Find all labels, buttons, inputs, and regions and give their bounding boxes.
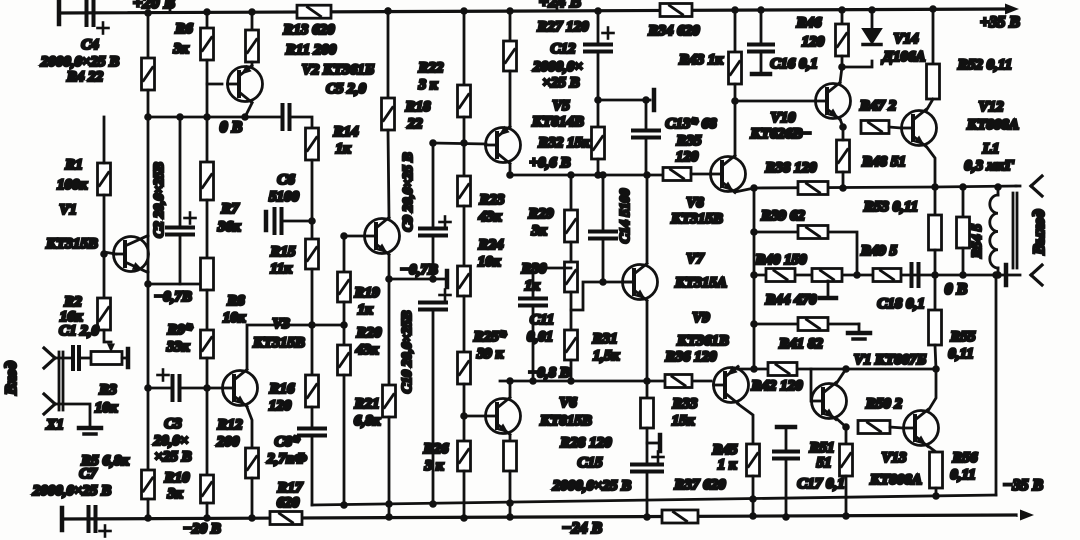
node line369/V11 bbox=[842, 365, 850, 373]
wire R22 top bbox=[463, 11, 466, 85]
label R56 value bbox=[950, 467, 975, 483]
svg-text:R33: R33 bbox=[671, 396, 698, 412]
resistor R17 bbox=[270, 512, 302, 525]
svg-text:V1: V1 bbox=[59, 202, 77, 218]
node rail/R21col bbox=[384, 7, 392, 15]
node 0V/R4 column bbox=[144, 113, 152, 121]
wire C16 bottom stub bbox=[760, 52, 763, 72]
label L1 value bbox=[964, 158, 1014, 174]
label C12 bbox=[550, 41, 576, 57]
label C6 value bbox=[269, 189, 300, 205]
label R46 value bbox=[802, 34, 825, 50]
svg-text:R53 0,11: R53 0,11 bbox=[863, 199, 918, 215]
svg-text:R44 470: R44 470 bbox=[764, 292, 817, 308]
wire R40 line bbox=[754, 274, 935, 277]
wire V4 base lead bbox=[344, 235, 364, 238]
label R22 bbox=[417, 60, 444, 76]
label R12 value bbox=[216, 434, 240, 450]
node V3 collector node bbox=[308, 321, 316, 329]
label 0V left bbox=[220, 119, 243, 136]
svg-text:R48 51: R48 51 bbox=[861, 154, 906, 170]
wire R7 top from base bbox=[206, 84, 209, 162]
capacitor C10 bbox=[420, 290, 451, 310]
label +24V bbox=[539, 0, 581, 11]
svg-text:R29: R29 bbox=[527, 206, 554, 222]
resistor R29 bbox=[565, 210, 578, 242]
node L1 top bbox=[994, 183, 1002, 191]
node 0V node bbox=[931, 271, 939, 279]
label R52 bbox=[957, 57, 1012, 73]
node R45 rail bbox=[749, 512, 757, 520]
svg-text:C8*: C8* bbox=[274, 434, 300, 450]
svg-text:5100: 5100 bbox=[269, 189, 300, 205]
capacitor C12 bbox=[585, 28, 614, 52]
label V7 bbox=[686, 251, 704, 267]
C17 top bar bbox=[777, 425, 795, 430]
wire R27 top bbox=[509, 11, 512, 41]
svg-text:10к: 10к bbox=[478, 254, 501, 270]
svg-text:X1: X1 bbox=[45, 417, 64, 433]
resistor R7 bbox=[201, 162, 214, 200]
wire R11 to V2 bbox=[251, 62, 254, 66]
label R50 bbox=[865, 396, 903, 412]
label R7 value bbox=[217, 219, 241, 235]
label C4 bbox=[81, 37, 99, 53]
label V3 type bbox=[252, 335, 305, 351]
resistor R26 bbox=[458, 441, 471, 471]
node rail/R11 bbox=[248, 8, 256, 16]
label -0.7V mid bbox=[400, 262, 438, 278]
svg-text:R45: R45 bbox=[711, 442, 738, 458]
resistor R56 bbox=[930, 452, 943, 488]
wire V8 emitter line bbox=[754, 187, 935, 188]
wire V7 emitter bbox=[646, 301, 649, 398]
label R7 bbox=[220, 201, 239, 217]
svg-text:R15: R15 bbox=[269, 244, 296, 260]
wire R15 to R16 bbox=[311, 269, 314, 375]
label C4 value bbox=[40, 54, 120, 70]
resistor R13 bbox=[297, 5, 331, 18]
transistor V6 bbox=[486, 398, 521, 435]
node rail/R4 bbox=[144, 9, 152, 17]
wire R48 to line bbox=[842, 172, 845, 188]
wire -20V/-24V bottom rail bbox=[62, 515, 1016, 519]
node R54 bottom bbox=[959, 271, 967, 279]
svg-text:2,7пФ: 2,7пФ bbox=[266, 451, 307, 467]
wire R43 top bbox=[734, 10, 737, 52]
wire base node to R23 bbox=[463, 143, 466, 176]
capacitor C9 bbox=[420, 217, 451, 236]
node R51 rail bbox=[842, 512, 850, 520]
wire X1 body bbox=[59, 352, 63, 410]
node line369/R55 bbox=[932, 365, 940, 373]
label R23 bbox=[478, 192, 505, 208]
label V10 type bbox=[750, 126, 812, 142]
svg-text:+35 В: +35 В bbox=[980, 14, 1020, 31]
capacitor C6 bbox=[275, 209, 282, 233]
label V5 type bbox=[531, 114, 584, 130]
svg-text:R34 620: R34 620 bbox=[647, 23, 700, 39]
label R19 value bbox=[357, 302, 373, 318]
capacitor C15 bbox=[632, 452, 664, 472]
node C13 top node bbox=[642, 96, 650, 104]
wire C17 to rail bbox=[785, 459, 788, 517]
transistor V4 bbox=[365, 218, 400, 255]
label R35 bbox=[675, 133, 702, 149]
svg-text:R21: R21 bbox=[353, 396, 379, 412]
node R54 top bbox=[959, 183, 967, 191]
R3 right terminal bbox=[126, 349, 131, 367]
wire V6 emitter bbox=[509, 435, 512, 441]
label C15 bbox=[577, 455, 603, 471]
resistor R15 bbox=[306, 239, 319, 269]
svg-text:R36 120: R36 120 bbox=[664, 349, 717, 365]
wire top rail arrow bbox=[1005, 4, 1019, 15]
label -35V bbox=[1003, 477, 1044, 494]
wire V5 base line bbox=[433, 143, 486, 144]
label C17 bbox=[797, 476, 845, 492]
potentiometer R3 bbox=[91, 352, 122, 365]
node C3 left node bbox=[144, 384, 152, 392]
label R42 bbox=[750, 378, 803, 394]
capacitor C18 bbox=[912, 264, 919, 286]
svg-text:×25 В: ×25 В bbox=[154, 449, 191, 465]
svg-text:C1 2,0: C1 2,0 bbox=[59, 323, 100, 339]
svg-text:R25*: R25* bbox=[473, 329, 507, 345]
svg-text:R20: R20 bbox=[355, 325, 382, 341]
label R1 bbox=[64, 157, 83, 173]
label V2 bbox=[302, 62, 375, 78]
wire R20 to bottom line bbox=[343, 375, 346, 505]
label R55 bbox=[949, 329, 976, 345]
label C12 value1 bbox=[532, 59, 583, 75]
svg-text:С15: С15 bbox=[577, 455, 603, 471]
wire R39 line bbox=[754, 232, 857, 275]
wire R9 to C3 node bbox=[206, 358, 209, 388]
svg-text:R24: R24 bbox=[477, 237, 504, 253]
svg-text:КТ815В: КТ815В bbox=[539, 413, 592, 429]
label -0.7V left bbox=[154, 289, 192, 305]
label V12 type bbox=[966, 117, 1019, 133]
label R3 bbox=[98, 382, 117, 398]
resistor R42 bbox=[768, 363, 797, 376]
resistor R37 bbox=[662, 510, 698, 523]
node -0.8/R36 bbox=[643, 377, 651, 385]
svg-text:R39 62: R39 62 bbox=[760, 208, 805, 224]
label R30 bbox=[520, 261, 547, 277]
svg-text:C5 2,0: C5 2,0 bbox=[326, 81, 367, 97]
label R34 bbox=[647, 23, 700, 39]
transistor V1 bbox=[114, 236, 149, 273]
wire X1 top pin to C1 bbox=[55, 357, 70, 360]
label R48 bbox=[861, 154, 906, 170]
label R43 bbox=[678, 52, 723, 68]
wire R22 to base node bbox=[463, 117, 466, 143]
wire C14 bottom stub bbox=[602, 239, 605, 282]
svg-text:1,5к: 1,5к bbox=[593, 348, 620, 364]
svg-text:R49 5: R49 5 bbox=[860, 243, 898, 259]
label V1 bbox=[59, 202, 77, 218]
svg-text:V6: V6 bbox=[559, 395, 577, 411]
label C5 bbox=[326, 81, 367, 97]
resistor R6 bbox=[201, 28, 214, 60]
wire R3 to bar bbox=[122, 357, 128, 360]
svg-text:V8: V8 bbox=[686, 195, 704, 211]
label C9 text bbox=[401, 152, 416, 231]
svg-text:R32 15к: R32 15к bbox=[537, 135, 590, 151]
wire R30 to R31 bbox=[570, 292, 573, 330]
wire C3 wires bbox=[148, 387, 171, 390]
node V4 base node bbox=[340, 232, 348, 240]
resistor R10 bbox=[201, 475, 214, 503]
label R5 bbox=[80, 453, 129, 469]
node rail/R22 bbox=[460, 7, 468, 15]
label C15 value bbox=[552, 478, 632, 494]
transistor V10 bbox=[816, 83, 851, 120]
R44 stub bar bbox=[820, 296, 836, 301]
svg-text:R14: R14 bbox=[332, 124, 359, 140]
wire R29 to R30 bbox=[570, 242, 573, 262]
wire R50 to V13 base bbox=[890, 427, 903, 428]
label R23 value bbox=[478, 209, 502, 225]
wire R6 top bbox=[206, 12, 209, 28]
node rail/C16 bbox=[757, 6, 765, 14]
svg-text:R51: R51 bbox=[808, 440, 834, 456]
svg-text:C3: C3 bbox=[164, 416, 182, 432]
label V13 type bbox=[869, 472, 922, 488]
label 0V right bbox=[945, 281, 968, 298]
svg-text:33к: 33к bbox=[166, 339, 190, 355]
svg-text:R42 120: R42 120 bbox=[750, 378, 803, 394]
wire C3 node down to R10 bbox=[206, 388, 209, 475]
label C7 bbox=[79, 466, 97, 482]
label V6 bbox=[559, 395, 577, 411]
resistor R45 bbox=[747, 444, 760, 476]
node R12 rail node bbox=[248, 514, 256, 522]
label R37 bbox=[673, 477, 726, 493]
label R17 bbox=[276, 480, 303, 496]
wire V7 base path bbox=[571, 282, 634, 310]
node +0.6/R32 bbox=[594, 171, 602, 179]
terminal bar left of C4 bbox=[57, 2, 62, 24]
svg-text:С11: С11 bbox=[530, 312, 554, 328]
svg-text:V5: V5 bbox=[552, 98, 570, 114]
wire C10 to bottom bbox=[432, 310, 435, 504]
transistor V13 bbox=[904, 410, 939, 447]
wire C11 lower stub bbox=[532, 306, 535, 381]
svg-text:V2 КТ361Б: V2 КТ361Б bbox=[302, 62, 375, 78]
label R14 value bbox=[335, 141, 351, 157]
label R30 value bbox=[524, 278, 540, 294]
wire R48 top bbox=[842, 127, 845, 140]
wire V1 base lead bbox=[104, 252, 116, 254]
svg-text:КТ361В: КТ361В bbox=[676, 333, 729, 349]
svg-text:R50 2: R50 2 bbox=[865, 396, 903, 412]
wire V10 emitter bbox=[840, 119, 843, 127]
wire C15 to rail bbox=[646, 472, 649, 517]
node fb/R39 bbox=[750, 228, 758, 236]
svg-text:120: 120 bbox=[269, 398, 292, 414]
label V9 type bbox=[676, 333, 729, 349]
resistor R55 bbox=[929, 310, 942, 345]
label R45 bbox=[711, 442, 738, 458]
wire R55 top bbox=[934, 275, 937, 310]
wire X1 bottom pin to ground bbox=[55, 404, 90, 426]
wire V2 collector down bbox=[245, 103, 252, 117]
node R28/line503 bbox=[506, 499, 514, 507]
node right vertical top bbox=[992, 271, 1000, 279]
label R8 bbox=[226, 293, 245, 309]
label Vhod bbox=[3, 361, 20, 396]
svg-text:V1 КТ807Б: V1 КТ807Б bbox=[854, 352, 927, 368]
transistor V5 bbox=[486, 126, 521, 164]
transistor V3 bbox=[223, 370, 258, 407]
wire R43 to V8 bbox=[734, 84, 737, 156]
label R19 bbox=[353, 285, 380, 301]
transistor V7 bbox=[623, 264, 658, 301]
svg-text:КТ814В: КТ814В bbox=[531, 114, 584, 130]
capacitor C1 bbox=[73, 347, 79, 369]
svg-text:C4: C4 bbox=[81, 37, 99, 53]
capacitor C4 bbox=[87, 1, 109, 34]
svg-text:R11 200: R11 200 bbox=[285, 42, 337, 58]
terminal above C15 bbox=[658, 435, 663, 451]
svg-text:43к: 43к bbox=[478, 209, 502, 225]
label R47 bbox=[859, 98, 897, 114]
label C3 bbox=[164, 416, 182, 432]
wire V6 base node to R26 bbox=[463, 416, 466, 441]
connector X2 pin top bbox=[1031, 176, 1042, 196]
wire C15 T stub bbox=[647, 442, 658, 445]
label +0.6V bbox=[529, 155, 570, 171]
resistor R5 bbox=[142, 470, 155, 499]
resistor R43 bbox=[729, 52, 742, 84]
wire R29 top bbox=[570, 175, 573, 210]
wire 0V output line bbox=[935, 274, 1003, 277]
wire R3 wiper bbox=[104, 330, 115, 353]
wire R54 bottom stub bbox=[962, 248, 965, 275]
wire C11 upper stub bbox=[532, 268, 535, 298]
wire line369 bbox=[738, 368, 936, 371]
wire X2 body bbox=[1013, 193, 1017, 268]
svg-text:R6: R6 bbox=[174, 21, 193, 37]
node rail/R43 bbox=[731, 6, 739, 14]
svg-text:3 к: 3 к bbox=[418, 77, 438, 93]
label R8 value bbox=[223, 310, 246, 326]
wire V11 emitter bbox=[836, 418, 846, 427]
wire -0.8V line bbox=[500, 380, 711, 383]
output lower bar bbox=[1004, 265, 1009, 285]
svg-text:R31: R31 bbox=[591, 331, 617, 347]
capacitor C16 bbox=[749, 45, 773, 52]
resistor R33 bbox=[641, 398, 654, 428]
wire R51 top bbox=[845, 427, 848, 444]
svg-text:R8: R8 bbox=[226, 293, 245, 309]
node +0.6/R29 bbox=[567, 171, 575, 179]
node -0.7V node bbox=[385, 275, 393, 283]
label V7 type bbox=[674, 275, 727, 291]
wire V8 emitter bbox=[735, 188, 754, 192]
svg-text:C9 20,0×25 В: C9 20,0×25 В bbox=[401, 152, 416, 231]
wire output top line bbox=[935, 186, 1016, 187]
svg-text:10к: 10к bbox=[95, 400, 118, 416]
svg-text:V9: V9 bbox=[692, 310, 710, 326]
svg-text:120: 120 bbox=[676, 149, 699, 165]
resistor R16 bbox=[306, 375, 319, 407]
label R55 value bbox=[948, 346, 973, 362]
label R21 bbox=[353, 396, 379, 412]
resistor R54 bbox=[957, 217, 970, 248]
wire V7 collector bbox=[646, 175, 649, 263]
label R15 bbox=[269, 244, 296, 260]
svg-text:0,11: 0,11 bbox=[950, 467, 975, 483]
node R21 rail node bbox=[385, 513, 393, 521]
svg-text:3к: 3к bbox=[530, 223, 547, 239]
label R38 bbox=[764, 160, 817, 176]
capacitor C2 bbox=[167, 213, 196, 235]
label R12 bbox=[216, 417, 243, 433]
svg-text:С18 0,1: С18 0,1 bbox=[877, 296, 925, 312]
label L1 bbox=[982, 141, 1000, 157]
svg-text:R47 2: R47 2 bbox=[859, 98, 897, 114]
label R56 bbox=[951, 450, 978, 466]
svg-text:R46: R46 bbox=[795, 15, 822, 31]
label R33 bbox=[671, 396, 698, 412]
node L1 bottom bbox=[994, 271, 1002, 279]
transistor V2 bbox=[228, 65, 263, 103]
svg-text:КТ315В: КТ315В bbox=[45, 236, 98, 252]
connector X1 pin 2 bbox=[44, 394, 55, 414]
svg-text:2000,0×25 В: 2000,0×25 В bbox=[40, 54, 120, 70]
label C6 bbox=[277, 172, 295, 188]
node fb/V9 bbox=[750, 365, 758, 373]
label R4 value bbox=[66, 69, 104, 85]
wire R8 to R9 bbox=[206, 290, 209, 330]
svg-text:−35 В: −35 В bbox=[1003, 477, 1044, 494]
wire V6 base lead bbox=[464, 415, 485, 418]
label V3 bbox=[272, 316, 290, 332]
capacitor C17 bbox=[774, 452, 798, 459]
resistor R44 bbox=[812, 269, 842, 282]
wire base node down to R2 bbox=[103, 254, 106, 298]
resistor R51 bbox=[840, 444, 853, 476]
-0.7V terminal bbox=[445, 271, 450, 287]
resistor R9 bbox=[201, 330, 214, 358]
wire L1 top stub bbox=[997, 187, 1000, 195]
label R15 value bbox=[270, 261, 292, 277]
wire C3 node to R5 bbox=[147, 388, 150, 470]
wire R55 to line369 bbox=[935, 345, 936, 369]
node -0.8/R31 bbox=[567, 377, 575, 385]
node C12/C13 node bbox=[594, 96, 602, 104]
node rail/R46 bbox=[838, 6, 846, 14]
resistor R8 bbox=[201, 258, 214, 290]
svg-text:L1: L1 bbox=[982, 141, 1000, 157]
wire V11 collector bbox=[836, 369, 846, 384]
wire R23 to R24 bbox=[463, 206, 466, 266]
svg-text:R3: R3 bbox=[98, 382, 117, 398]
resistor R35 bbox=[663, 168, 691, 181]
svg-text:R12: R12 bbox=[216, 417, 243, 433]
wire C16 top bbox=[760, 10, 763, 44]
node R47 node bbox=[839, 123, 847, 131]
label R22 value bbox=[418, 77, 438, 93]
resistor R40 bbox=[766, 269, 795, 282]
svg-text:43к: 43к bbox=[355, 342, 379, 358]
node R26 rail node bbox=[460, 514, 468, 522]
wire R12 to rail bbox=[251, 478, 254, 518]
label R10 value bbox=[166, 486, 183, 502]
